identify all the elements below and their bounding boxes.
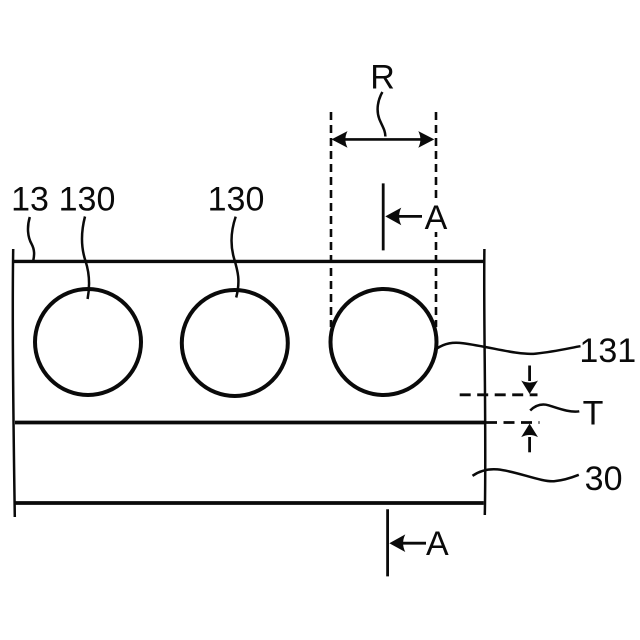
hole 130 circle left (35, 289, 141, 395)
dashed extension line left of R (330, 112, 333, 327)
svg-text:30: 30 (585, 460, 623, 498)
left cut edge (13, 249, 15, 517)
dashed dimension line at layer boundary (486, 421, 540, 424)
dimension T upper arrow shaft (528, 366, 531, 382)
hole 130 circle middle (182, 290, 288, 396)
dimension T lower arrowhead (521, 424, 538, 438)
hole 131 circle right (331, 289, 437, 395)
dimension T upper arrowhead (521, 381, 538, 395)
leader for 130 left (82, 217, 89, 300)
svg-text:13: 13 (11, 181, 49, 219)
section arrow A bottom shaft (393, 542, 426, 545)
right cut edge (484, 249, 485, 515)
leader for 30 (473, 469, 579, 481)
leader for 130 middle (232, 217, 239, 298)
section arrow A bottom arrowhead (389, 534, 405, 552)
dimension R line (334, 138, 432, 141)
section line A top (382, 183, 385, 250)
layer 30 bottom edge (15, 501, 484, 505)
layer 13 / layer 30 boundary edge (15, 421, 485, 425)
dashed extension line right of R (435, 112, 438, 327)
white mask behind label A top (424, 203, 451, 233)
svg-text:R: R (370, 59, 395, 97)
svg-text:T: T (583, 395, 604, 433)
leader for R (378, 92, 386, 137)
section arrow A top arrowhead (385, 208, 401, 226)
leader for 13 (28, 217, 34, 261)
svg-text:131: 131 (579, 332, 636, 370)
svg-text:130: 130 (208, 181, 265, 219)
leader for T (530, 405, 579, 412)
dimension T lower arrow shaft (528, 437, 531, 452)
leader for 131 (436, 343, 580, 354)
svg-text:A: A (426, 525, 449, 563)
dimension R left arrowhead (332, 131, 348, 148)
svg-text:A: A (425, 199, 448, 237)
svg-text:130: 130 (59, 181, 116, 219)
section arrow A top shaft (389, 215, 422, 218)
layer 13 top edge (13, 260, 484, 263)
dimension R right arrowhead (418, 131, 434, 148)
dashed dimension line at circle bottom (460, 393, 538, 396)
section line A bottom (386, 509, 389, 576)
